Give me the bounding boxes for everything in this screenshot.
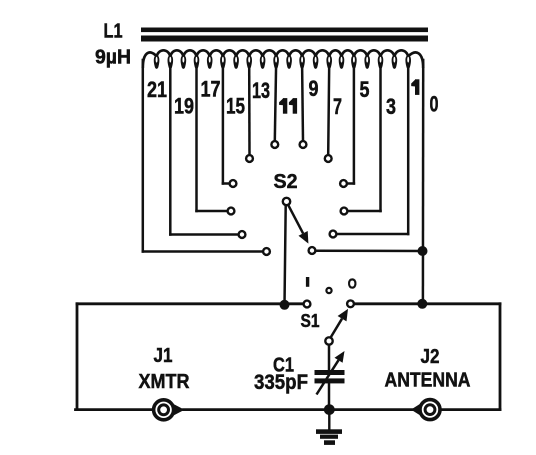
wire box left edge	[76, 304, 79, 410]
wire tap 21 (coil left end) to S2 contact	[143, 60, 263, 252]
wire box bottom edge J1 to C1 node	[184, 408, 330, 411]
S1 pole contact I	[304, 301, 311, 308]
svg-text:J1: J1	[154, 345, 173, 367]
S2 contact for tap 11	[271, 141, 278, 148]
wire tap 7 to S2 contact	[328, 65, 329, 155]
svg-text:S1: S1	[301, 311, 320, 331]
wire box bottom edge C1 node to J2	[329, 408, 413, 411]
svg-text:335pF: 335pF	[254, 371, 308, 394]
wire S2 pivot down to node A	[285, 206, 286, 306]
wire tap 9 to S2 contact	[301, 65, 304, 141]
S2 contact for tap 19	[239, 231, 246, 238]
wire tap 15 to S2 contact	[223, 65, 229, 184]
wire box top edge right segment (S1 throw O to right corner)	[354, 302, 500, 305]
inductor L1 winding	[143, 50, 423, 69]
wire box bottom edge right of J2	[442, 408, 501, 411]
wire tap 17 to S2 contact	[197, 65, 228, 211]
S1 wiper pivot	[325, 337, 332, 344]
junction node A (S2 stem on box top)	[280, 300, 290, 310]
svg-text:9µH: 9µH	[95, 47, 131, 69]
junction node C (C1 / ground on box bottom)	[324, 404, 335, 415]
S2 contact for tap 7	[325, 155, 332, 162]
wire box right edge	[499, 304, 502, 410]
wire S2 selected contact to node B	[316, 249, 423, 252]
svg-text:13: 13	[252, 78, 270, 103]
svg-text:15: 15	[226, 94, 245, 119]
svg-text:19: 19	[174, 94, 194, 119]
junction tap-0 wire on box top	[417, 299, 427, 309]
wire box top edge left segment (node A to S1 pole I)	[77, 302, 303, 305]
S2 wiper pivot	[283, 198, 290, 205]
ground symbol	[316, 410, 342, 445]
svg-text:0: 0	[430, 91, 439, 116]
label I (S1 position)	[306, 277, 309, 287]
capacitor C1 bottom plate	[315, 378, 345, 383]
S2 contact for tap 3	[341, 208, 348, 215]
S2 contact for tap 17	[228, 208, 235, 215]
svg-text:S2: S2	[274, 171, 298, 193]
inductor L1 core bar lower	[141, 36, 428, 42]
S2 contact for tap 21	[263, 248, 270, 255]
svg-text:L1: L1	[104, 21, 123, 43]
S2 wiper arm with arrow	[288, 205, 308, 243]
svg-text:7: 7	[333, 94, 342, 119]
connector J1 (phono jack)	[154, 400, 185, 420]
S2 contact for tap 15	[230, 180, 237, 187]
svg-text:O: O	[348, 276, 357, 293]
svg-text:3: 3	[386, 94, 396, 119]
junction node B (tap 0 / wiper line)	[418, 246, 428, 256]
wire tap 11 to S2 contact	[275, 65, 276, 141]
S2 contact for tap 1	[330, 231, 337, 238]
label tap 1	[411, 79, 419, 95]
wire tap 13 to S2 contact	[248, 65, 251, 155]
inductor L1 core bar upper	[141, 28, 428, 33]
S1 throw contact O	[347, 300, 354, 307]
wire S1 pivot to C1 top plate	[328, 345, 331, 370]
S1 wiper arm with arrow	[331, 309, 348, 338]
wire tap 0 (coil right end) down to node B	[422, 60, 425, 304]
S2 contact for tap 13	[246, 155, 253, 162]
wire tap 5 to S2 contact	[347, 65, 354, 184]
svg-text:ANTENNA: ANTENNA	[385, 370, 471, 392]
wire tap 19 to S2 contact	[170, 65, 238, 235]
svg-text:9: 9	[309, 76, 319, 101]
label tap 11	[279, 98, 297, 114]
connector J2 (phono jack)	[411, 400, 440, 420]
svg-text:21: 21	[147, 77, 167, 102]
svg-text:5: 5	[360, 77, 370, 102]
capacitor C1 top plate	[315, 370, 345, 375]
wire tap 1 to S2 contact	[337, 65, 408, 234]
wire C1 bottom plate to node C	[328, 383, 331, 410]
svg-text:J2: J2	[421, 346, 440, 368]
S2 contact for tap 9	[300, 141, 307, 148]
C1 variable arrow	[317, 351, 345, 395]
wire tap 3 to S2 contact	[348, 65, 381, 211]
S2 selected contact	[309, 247, 316, 254]
S1 center contact	[326, 288, 331, 293]
svg-text:17: 17	[201, 77, 221, 102]
svg-text:XMTR: XMTR	[139, 371, 190, 393]
S2 contact for tap 5	[340, 180, 347, 187]
wire box bottom edge left of J1	[76, 408, 153, 411]
